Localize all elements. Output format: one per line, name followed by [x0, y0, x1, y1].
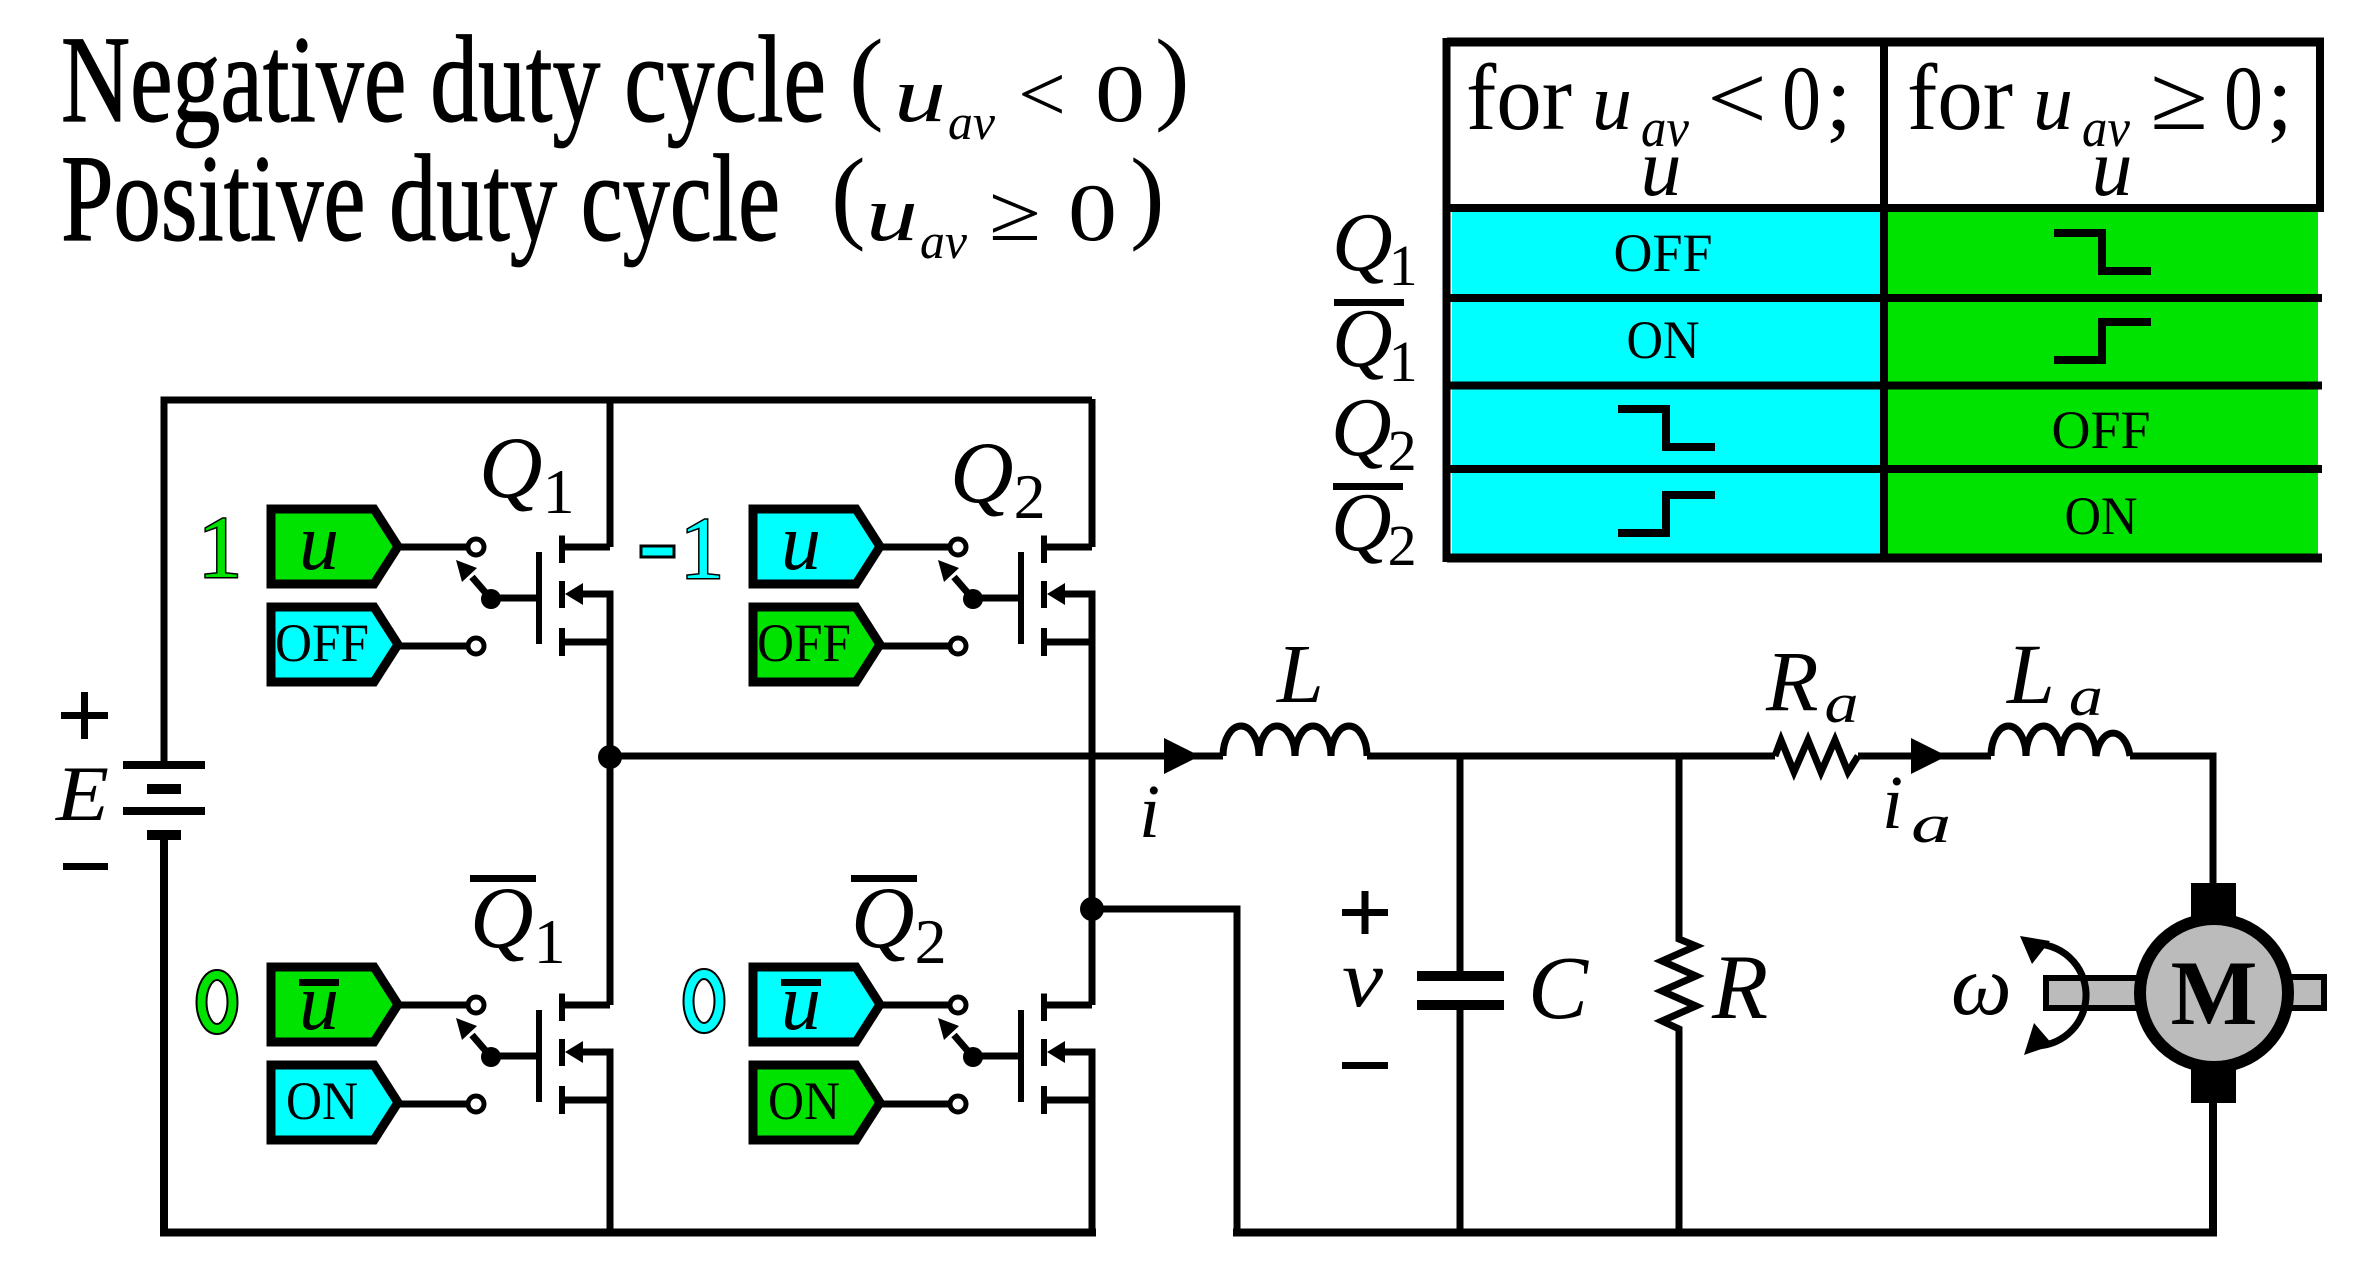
table borders	[1447, 38, 2325, 562]
svg-text:M: M	[2171, 942, 2258, 1044]
cell r3c1: falling step	[1618, 409, 1715, 447]
svg-text:OFF: OFF	[757, 613, 851, 673]
capacitor C	[1457, 756, 1464, 1232]
svg-text:u: u	[299, 499, 339, 587]
current arrow ia	[1911, 738, 1947, 774]
flag OFF (Q1)	[271, 607, 398, 682]
battery E	[123, 761, 205, 840]
resistor R (vertical zigzag)	[1662, 756, 1696, 1232]
svg-text:uav≥0: uav≥0	[866, 167, 1117, 269]
battery minus sign	[63, 863, 108, 870]
motor shaft stub (right)	[2280, 977, 2324, 1008]
svg-text:E: E	[55, 750, 109, 837]
wire: bridge left lower + bottom rail	[164, 839, 1096, 1233]
wire: left leg vertical (x=610)	[607, 399, 614, 1232]
flag u-bar (Q2bar)	[753, 959, 880, 1047]
table row label Q2-bar	[1333, 483, 1403, 490]
svg-text:Negative duty cycle: Negative duty cycle	[61, 11, 826, 148]
motor terminal bottom	[2191, 1069, 2236, 1103]
transistor Q2	[880, 536, 1092, 657]
table cell fill: cyan column	[1452, 208, 1882, 558]
svg-text:Positive duty cycle: Positive duty cycle	[61, 130, 780, 267]
svg-text:u: u	[781, 499, 821, 587]
flag u (Q2)	[753, 499, 880, 587]
svg-text:u: u	[1641, 122, 1682, 213]
wire: right leg vertical (x=1092)	[1089, 399, 1096, 1232]
current arrow i	[1164, 738, 1200, 774]
battery plus sign	[61, 692, 108, 739]
svg-text:R: R	[1711, 936, 1768, 1038]
flag u (Q1)	[271, 499, 398, 587]
flag OFF (Q2)	[753, 607, 880, 682]
label Q1-bar	[470, 875, 536, 882]
svg-text:1: 1	[198, 500, 242, 597]
table row label Q1-bar	[1334, 299, 1404, 306]
resistor Ra (horizontal zigzag)	[1775, 740, 1858, 772]
svg-text:ON: ON	[286, 1071, 358, 1131]
svg-text:OFF: OFF	[275, 613, 369, 673]
svg-text:u: u	[781, 959, 821, 1047]
motor body M	[2140, 919, 2288, 1067]
node B (right leg midpoint)	[1080, 897, 1104, 921]
transistor Q2-bar	[880, 994, 1092, 1115]
svg-text:uav<0: uav<0	[894, 48, 1145, 150]
inductor La	[1991, 726, 2130, 756]
inductor L	[1223, 726, 1367, 756]
svg-text:ON: ON	[768, 1071, 840, 1131]
svg-text:C: C	[1528, 939, 1589, 1038]
svg-text:1: 1	[680, 501, 724, 598]
motor terminal top	[2191, 883, 2236, 918]
v minus	[1342, 1062, 1388, 1069]
svg-text:i: i	[1139, 770, 1160, 854]
svg-text:u: u	[2092, 122, 2133, 213]
svg-text:v: v	[1342, 933, 1384, 1024]
wire: output A horizontal	[610, 756, 2213, 890]
svg-text:L: L	[1276, 628, 1324, 721]
node A (left leg midpoint)	[598, 745, 622, 769]
wire: output B return	[1092, 909, 1237, 1232]
motor shaft (left)	[2046, 978, 2146, 1008]
svg-text:OFF: OFF	[1614, 223, 1713, 283]
svg-text:u: u	[299, 959, 339, 1047]
value -1 (Q2)	[641, 546, 674, 557]
wire: bridge top rail	[164, 400, 1092, 761]
value 0 (Q1bar)	[202, 975, 233, 1029]
flag u-bar (Q1bar)	[271, 959, 398, 1047]
wire: load bottom rail	[1233, 1095, 2213, 1233]
cell r2c2: rising step	[2054, 322, 2151, 360]
flag ON (Q1bar)	[271, 1065, 398, 1140]
rotation arrow	[2033, 944, 2086, 1046]
cell r4c1: rising step	[1618, 495, 1715, 533]
table cell fill: green column	[1887, 208, 2318, 558]
transistor Q1	[398, 536, 610, 657]
flag ON (Q2bar)	[753, 1065, 880, 1140]
v plus	[1342, 891, 1388, 934]
cell r1c2: falling step	[2054, 233, 2151, 271]
transistor Q1-bar	[398, 994, 610, 1115]
svg-text:OFF: OFF	[2052, 400, 2151, 460]
value 0 (Q2bar)	[689, 974, 720, 1028]
svg-text:ON: ON	[1627, 310, 1700, 370]
svg-text:ω: ω	[1951, 937, 2012, 1033]
svg-text:ON: ON	[2065, 486, 2138, 546]
label Q2-bar	[851, 875, 917, 882]
